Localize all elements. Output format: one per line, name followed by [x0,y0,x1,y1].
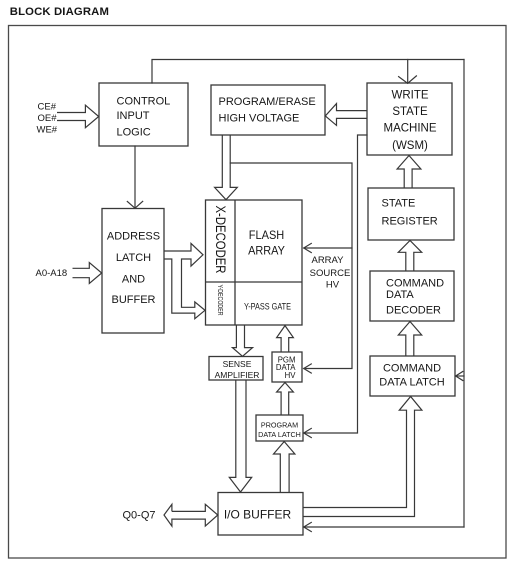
svg-text:WE#: WE# [37,125,58,136]
svg-text:Y-DECODER: Y-DECODER [216,285,225,316]
svg-text:SOURCE: SOURCE [310,268,351,279]
open arrow: I/O BUFFER up into PROGRAM DATA LATCH [274,442,295,493]
block CONTROL INPUT LOGIC U1 [99,83,188,146]
block ADDRESS LATCH AND BUFFER [102,209,164,334]
svg-text:OE#: OE# [38,113,58,124]
svg-text:ARRAY: ARRAY [311,255,344,266]
wire: CONTROL INPUT LOGIC to ADDRESS LATCH arrow [134,146,136,208]
open arrow: Q0-Q7 bidirectional with I/O BUFFER [164,504,218,526]
svg-text:MACHINE: MACHINE [383,123,436,135]
svg-text:CE#: CE# [38,101,57,112]
open arrow: WSM to PROGRAM/ERASE HIGH VOLTAGE [325,104,367,126]
svg-text:SENSE: SENSE [223,359,252,369]
svg-text:COMMAND: COMMAND [386,277,444,289]
divider X/Y decoder column [234,200,236,325]
svg-text:DECODER: DECODER [386,305,441,317]
wire: branch arrow into COMMAND DATA LATCH right [456,375,464,377]
svg-text:AND: AND [122,273,145,285]
block WRITE STATE MACHINE (WSM) [367,83,452,155]
open arrow: COMMAND DATA DECODER up into STATE REGISTER [398,241,421,272]
wire: HV distribution from program/erase shaft [230,163,352,369]
open arrow: Y-PASS GATE down into SENSE AMPLIFIER [232,325,252,356]
wire: bottom run arrow into I/O BUFFER right [304,526,464,528]
block array matrix (X-DECODER / FLASH ARRAY / Y-DECODER / Y-PASS GATE) [206,200,303,325]
svg-text:AMPLIFIER: AMPLIFIER [215,370,260,380]
wire: arrow into WSM top [407,60,409,84]
svg-text:DATA LATCH: DATA LATCH [258,430,301,439]
wire: WSM left to PROGRAM DATA LATCH arrow [304,135,367,433]
open arrow: ADDRESS LATCH to X-DECODER and Y-DECODER [164,243,205,318]
wire: right rail down [463,60,465,528]
block PGM DATA HV [272,352,302,382]
svg-text:LATCH: LATCH [116,252,151,264]
divider Y-PASS GATE row [206,281,303,283]
block STATE REGISTER [368,188,454,240]
svg-text:Q0-Q7: Q0-Q7 [123,510,156,522]
block COMMAND DATA DECODER [370,271,454,321]
svg-text:BLOCK DIAGRAM: BLOCK DIAGRAM [10,6,109,18]
svg-text:I/O BUFFER: I/O BUFFER [224,507,292,521]
open arrow: PROGRAM/ERASE HV down into X-DECODER [215,135,238,200]
open arrow: CE/OE/WE into CONTROL INPUT LOGIC [57,105,99,128]
open arrow: PGM DATA HV up into Y-PASS GATE [277,326,294,352]
svg-text:WRITE: WRITE [391,90,428,102]
block PROGRAM DATA LATCH [256,415,303,441]
svg-text:ADDRESS: ADDRESS [107,231,160,243]
svg-text:BUFFER: BUFFER [112,294,156,306]
svg-text:DATA LATCH: DATA LATCH [379,377,444,389]
svg-text:HV: HV [326,280,340,291]
svg-text:STATE: STATE [382,198,416,210]
svg-text:X-DECODER: X-DECODER [213,206,229,274]
svg-text:CONTROL: CONTROL [117,96,171,108]
svg-text:(WSM): (WSM) [392,140,428,152]
svg-text:REGISTER: REGISTER [382,216,438,228]
svg-text:HIGH VOLTAGE: HIGH VOLTAGE [219,113,300,125]
open arrow: COMMAND DATA LATCH up into COMMAND DATA DECODER [398,322,421,357]
svg-text:ARRAY: ARRAY [248,243,285,257]
wire: CONTROL INPUT LOGIC top to top rail to WSM/right rail [152,60,464,84]
svg-text:STATE: STATE [392,106,428,118]
svg-text:A0-A18: A0-A18 [36,268,68,279]
open arrow: A0-A18 into ADDRESS LATCH [73,263,102,284]
open arrow: PROGRAM DATA LATCH up into PGM DATA HV [277,383,294,416]
wire: arrowhead into PGM DATA HV right [304,364,312,373]
svg-text:COMMAND: COMMAND [383,362,441,374]
block COMMAND DATA LATCH [370,356,455,396]
svg-text:Y-PASS GATE: Y-PASS GATE [244,301,291,311]
svg-text:LOGIC: LOGIC [117,127,151,139]
open arrow: I/O BUFFER right up into COMMAND DATA LATCH [303,397,422,517]
svg-text:HV: HV [285,371,297,380]
svg-text:FLASH: FLASH [249,228,285,242]
open arrow: STATE REGISTER up into WSM [397,156,421,189]
svg-text:PROGRAM/ERASE: PROGRAM/ERASE [219,96,316,108]
block PROGRAM/ERASE HIGH VOLTAGE [211,85,325,135]
block I/O BUFFER [218,493,303,536]
svg-text:PROGRAM: PROGRAM [261,421,298,430]
open arrow: SENSE AMPLIFIER down into I/O BUFFER [229,380,251,492]
wire: branch arrow into FLASH ARRAY right [304,247,352,249]
svg-text:DATA: DATA [386,289,414,301]
block SENSE AMPLIFIER [209,357,263,381]
svg-text:INPUT: INPUT [117,110,150,122]
